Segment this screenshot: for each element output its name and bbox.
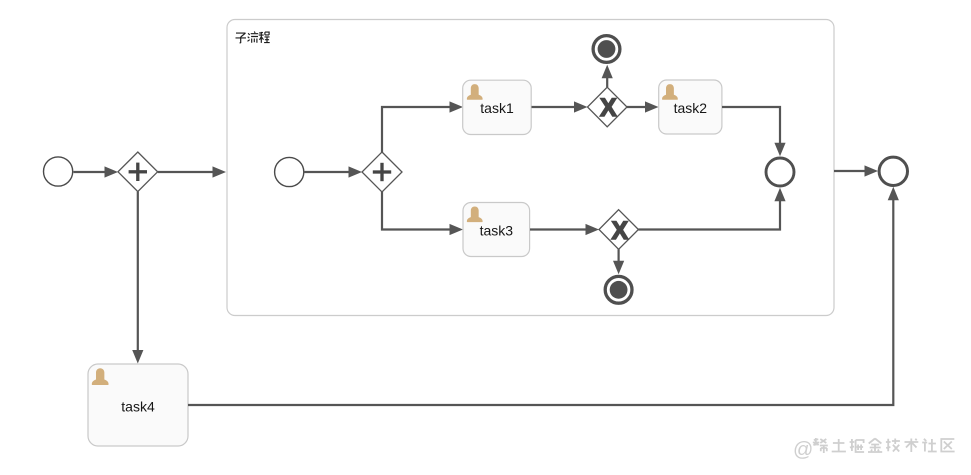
merge end circle M	[766, 158, 794, 186]
parallel gateway GW2	[362, 152, 402, 192]
user task2	[659, 80, 722, 134]
wire task3 to GW4	[530, 224, 599, 235]
start event S2 (inner)	[275, 157, 304, 186]
wire GW1 down to task4	[132, 192, 143, 364]
wire S1 to GW1	[74, 166, 119, 177]
svg-text:task2: task2	[674, 100, 708, 116]
wire task2 to merge circle M	[722, 107, 786, 156]
svg-text:X: X	[611, 217, 628, 245]
parallel gateway GW1	[118, 152, 158, 192]
subprocess container 子流程	[227, 20, 834, 316]
user task1	[463, 80, 532, 134]
exclusive gateway GW3	[588, 87, 628, 127]
svg-text:X: X	[600, 94, 617, 122]
wire GW4 down to E2	[613, 249, 624, 274]
exclusive gateway GW4	[599, 210, 638, 250]
svg-text:@: @	[793, 439, 813, 461]
svg-text:task1: task1	[480, 100, 514, 116]
wire task1 to GW3	[532, 101, 588, 112]
svg-text:task4: task4	[121, 399, 155, 415]
wire GW4 to merge circle M	[638, 188, 785, 230]
wire GW1 to subprocess	[158, 166, 226, 177]
wire subprocess to E3	[834, 165, 878, 176]
watermark @稀土掘金技术社区	[793, 438, 955, 461]
wire GW2 down to task3	[382, 192, 463, 235]
start event S1	[44, 157, 73, 186]
terminate end event E1	[593, 36, 620, 63]
terminate end event E2	[605, 276, 632, 303]
wire S2 to GW2	[305, 166, 363, 177]
svg-text:task3: task3	[480, 223, 514, 239]
label 子流程	[236, 32, 270, 44]
user task3	[463, 203, 530, 257]
wire GW3 up to E1	[602, 65, 613, 87]
wire GW2 up to task1	[382, 101, 463, 152]
wire GW3 to task2	[627, 101, 659, 112]
end event E3	[879, 157, 907, 185]
wire task4 to E3	[188, 187, 899, 405]
user task4	[88, 364, 188, 446]
